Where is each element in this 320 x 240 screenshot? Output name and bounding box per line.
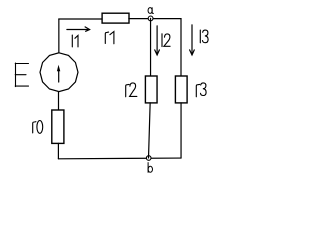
label I3 [200, 30, 208, 43]
node a [148, 16, 153, 21]
resistor R1 [102, 13, 129, 23]
voltage source E (12-gon circle) [40, 53, 78, 92]
label a [148, 8, 153, 14]
label r3 [196, 83, 206, 97]
label I2 [162, 34, 170, 47]
label I1 [72, 35, 78, 47]
wire r0 to bottom rail [57, 143, 59, 158]
wire top rail left segment [59, 18, 102, 20]
label E [15, 63, 28, 87]
node b [146, 156, 151, 161]
resistor R0 [52, 110, 64, 143]
label r1 [105, 32, 114, 44]
wire node a down to r2 [150, 18, 152, 76]
wire source bottom to r0 [58, 92, 60, 110]
label r2 [126, 83, 137, 97]
wire top rail right segment [129, 18, 181, 20]
wire left vertical from rail to source top [58, 19, 60, 53]
resistor R3 [175, 76, 187, 103]
wire rail corner down to r3 [180, 19, 182, 76]
wire bottom rail [58, 157, 181, 160]
wire r2 to node b [149, 103, 151, 158]
label b [148, 163, 152, 173]
label r0 [33, 121, 43, 134]
current arrow I1 [67, 29, 88, 31]
current arrow I2 [156, 26, 158, 55]
source arrow (EMF direction) [58, 71, 60, 82]
resistor R2 [145, 76, 157, 103]
current arrow I3 [191, 25, 193, 55]
wire r3 to bottom rail [180, 103, 182, 158]
